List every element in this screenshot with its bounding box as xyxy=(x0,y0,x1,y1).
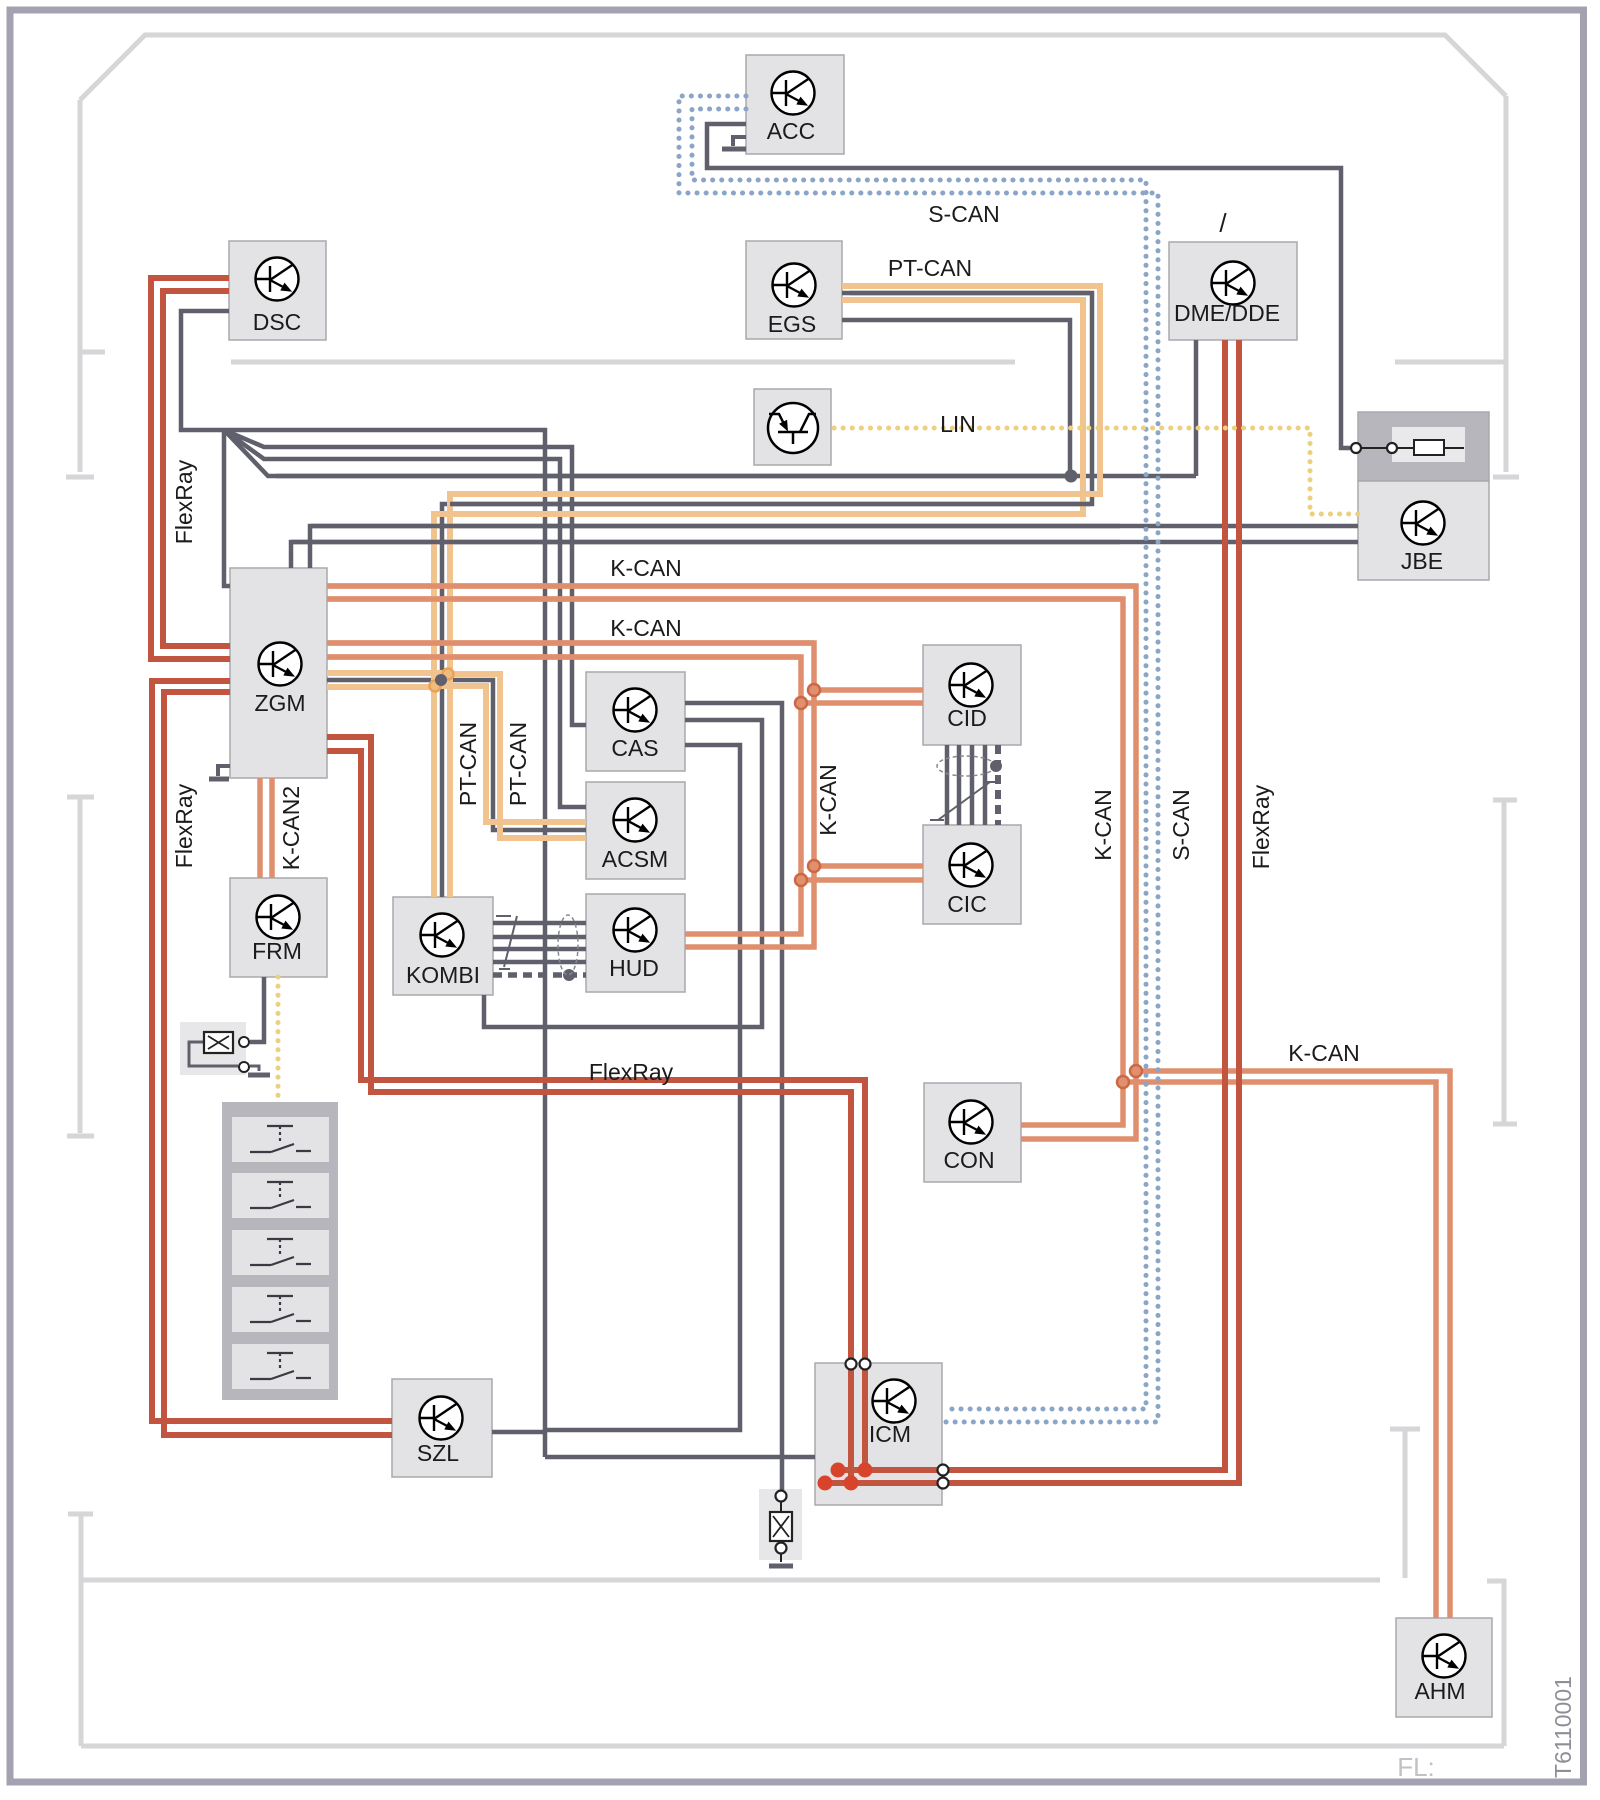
svg-text:CID: CID xyxy=(947,705,987,731)
svg-text:KOMBI: KOMBI xyxy=(406,962,480,988)
FlexRay ICM to DME lower xyxy=(948,340,1239,1483)
icon ICM xyxy=(873,1380,916,1423)
switch box 5 xyxy=(232,1344,329,1389)
KOMBI HUD wire 2 xyxy=(493,935,586,940)
ECU box ZGM xyxy=(230,568,327,778)
svg-text:CAS: CAS xyxy=(611,735,658,761)
svg-text:PT-CAN: PT-CAN xyxy=(455,722,481,806)
S-CAN dotted outer ACC-ICM xyxy=(679,96,1158,1422)
KOMBI bundle slash xyxy=(496,916,517,969)
steering column stalk box xyxy=(754,389,831,465)
wire dark fan long line y476 xyxy=(224,430,1196,476)
svg-text:ZGM: ZGM xyxy=(254,690,305,716)
svg-text:PT-CAN: PT-CAN xyxy=(505,722,531,806)
svg-text:K-CAN2: K-CAN2 xyxy=(278,786,304,870)
ECU box FRM xyxy=(230,878,327,977)
icon JBE xyxy=(1402,502,1445,545)
svg-text:K-CAN: K-CAN xyxy=(610,555,682,581)
firewall line right segment xyxy=(1395,360,1506,365)
icon ACSM xyxy=(614,799,657,842)
svg-text:K-CAN: K-CAN xyxy=(1090,789,1116,861)
switch box 4 xyxy=(232,1287,329,1332)
FlexRay pair ZGM-ICM line a xyxy=(327,737,851,1360)
car body right side line xyxy=(1493,96,1519,477)
svg-text:CON: CON xyxy=(943,1147,994,1173)
car body left lower vertical xyxy=(68,1514,93,1746)
K-CAN pair1 branch AHM b xyxy=(1123,1082,1436,1618)
JBE fuse element xyxy=(1414,440,1444,455)
K-CAN branch CIC lower xyxy=(801,877,923,883)
svg-text:CIC: CIC xyxy=(947,891,987,917)
left door tick xyxy=(81,350,105,355)
wire dark EGS lower to junction dot xyxy=(842,320,1070,476)
rear seat line xyxy=(81,1578,1380,1583)
svg-text:K-CAN: K-CAN xyxy=(610,615,682,641)
svg-text:PT-CAN: PT-CAN xyxy=(888,255,972,281)
relay X box xyxy=(204,1032,233,1053)
terminator stub ZGM xyxy=(218,766,230,776)
JBE fuse inner box xyxy=(1392,427,1465,462)
svg-text:FlexRay: FlexRay xyxy=(1248,784,1274,869)
CID CIC dashed wire xyxy=(995,745,1001,825)
wire dark DME vertical xyxy=(1194,340,1199,476)
car body outline top xyxy=(80,35,1506,100)
ECU box CIC xyxy=(923,825,1021,924)
FlexRay pair ZGM-ICM line b xyxy=(327,751,865,1360)
svg-text:ICM: ICM xyxy=(869,1421,911,1447)
CID CIC connector wires xyxy=(947,745,985,825)
KOMBI HUD wire 1 xyxy=(493,921,586,926)
CID CIC harness dot xyxy=(990,760,1002,772)
icon AHM xyxy=(1423,1635,1466,1678)
LIN dotted FRM to switches xyxy=(276,977,281,1100)
terminator stub ACC xyxy=(733,137,746,146)
PT-CAN tan ZGM out upper xyxy=(327,670,448,676)
switch stack container xyxy=(222,1102,338,1400)
svg-text:FL:: FL: xyxy=(1397,1752,1435,1782)
wire dark fan to ACSM via 560 xyxy=(224,430,586,807)
PT-CAN junction dots xyxy=(443,669,454,680)
FlexRay pair ZGM-SZL line a xyxy=(152,681,392,1421)
wire dark CAS right to bulb branch xyxy=(685,703,782,1490)
wire dark DSC to fan junction xyxy=(181,311,229,430)
icon DME/DDE xyxy=(1212,262,1255,305)
left door sill bracket xyxy=(67,797,94,1136)
ECU box CID xyxy=(923,645,1021,745)
icon HUD xyxy=(614,909,657,952)
PT-CAN tan ZGM out lower xyxy=(327,684,434,690)
K-CAN branch CID upper xyxy=(814,687,923,693)
svg-text:LIN: LIN xyxy=(940,411,976,437)
wire dark fan to vertical 545 xyxy=(224,430,545,1457)
ECU box ACSM xyxy=(586,782,685,879)
K-CAN2 pair ZGM-FRM xyxy=(260,778,272,878)
FlexRay ICM internal horizontal upper xyxy=(838,1467,938,1473)
wire dark fan junction to ZGM top left xyxy=(224,430,230,586)
FlexRay inside ICM vertical a xyxy=(848,1368,854,1483)
ECU box SZL xyxy=(392,1379,492,1477)
K-CAN pair1 line b xyxy=(327,599,1123,1125)
CID CIC bundle slash xyxy=(930,782,998,820)
svg-text:DME/DDE: DME/DDE xyxy=(1174,300,1280,326)
svg-text:K-CAN: K-CAN xyxy=(1288,1040,1360,1066)
ICM red stub dots xyxy=(831,1463,846,1478)
K-CAN branch CIC upper xyxy=(814,863,923,869)
K-CAN junction dots CID CIC xyxy=(808,684,820,696)
icon FRM xyxy=(257,896,300,939)
ECU box ACC xyxy=(746,55,844,154)
FlexRay pair DSC-ZGM line b xyxy=(163,291,230,646)
relay box background xyxy=(180,1022,246,1075)
svg-text:ACSM: ACSM xyxy=(602,846,668,872)
wire dark ZGM pair to JBE upper xyxy=(310,526,1358,568)
svg-text:JBE: JBE xyxy=(1401,548,1443,574)
wire dark ZGM pair to JBE lower xyxy=(291,542,1358,568)
ECU box HUD xyxy=(586,894,685,992)
svg-text:SZL: SZL xyxy=(417,1440,459,1466)
overpaint slate mid line continuity xyxy=(276,293,1090,504)
ECU box DME/DDE xyxy=(1169,242,1297,340)
wire dark ZGM PT-CAN slate out xyxy=(327,678,442,683)
PT-CAN tan branch ACSM upper xyxy=(448,674,586,838)
KOMBI HUD dashed wire xyxy=(493,972,586,978)
PT-CAN tan EGS loop inner xyxy=(434,300,1083,897)
bulb box symbol xyxy=(780,1490,782,1562)
icon EGS xyxy=(773,264,816,307)
wire dark PT-CAN slate branch to ACSM xyxy=(441,680,586,830)
FlexRay inside ICM vertical b xyxy=(862,1368,868,1470)
svg-text:FRM: FRM xyxy=(252,938,302,964)
svg-text:HUD: HUD xyxy=(609,955,659,981)
icon CON xyxy=(950,1101,993,1144)
svg-text:AHM: AHM xyxy=(1414,1678,1465,1704)
wire dark fan to CAS via 572 xyxy=(224,430,586,725)
svg-text:ACC: ACC xyxy=(767,118,816,144)
JBE header box xyxy=(1358,412,1489,481)
wire dark SZL right xyxy=(492,1430,545,1435)
bulb box background xyxy=(759,1489,802,1560)
wire dark to ICM left xyxy=(545,1455,815,1460)
icon stalk module xyxy=(768,403,818,453)
overpaint salmon K-CAN horizontals continuity xyxy=(327,586,1136,657)
FlexRay pair ZGM-SZL line b xyxy=(164,692,392,1435)
icon CIC xyxy=(950,844,993,887)
svg-text:S-CAN: S-CAN xyxy=(1168,789,1194,861)
switch box 2 xyxy=(232,1173,329,1218)
svg-text:S-CAN: S-CAN xyxy=(928,201,1000,227)
svg-text:T6110001: T6110001 xyxy=(1550,1676,1576,1778)
ECU box AHM xyxy=(1396,1618,1492,1717)
right door sill bracket xyxy=(1493,800,1517,1124)
icon ACC xyxy=(772,72,815,115)
icon KOMBI xyxy=(421,914,464,957)
K-CAN pair1 line a ZGM-CON-AHM xyxy=(327,586,1136,1139)
ECU box DSC xyxy=(229,241,326,340)
wire dark CAS right to KOMBI bottom xyxy=(484,720,762,1027)
svg-text:DSC: DSC xyxy=(253,309,302,335)
KOMBI connector ellipse xyxy=(558,915,578,975)
ECU box CON xyxy=(924,1083,1021,1182)
K-CAN pair2 line a ZGM-CID-CIC-HUD xyxy=(327,643,814,947)
overpaint FlexRay bottom horizontals continuity xyxy=(361,1080,865,1092)
wire dark EGS PT-CAN slate loop xyxy=(442,293,1092,897)
svg-text:FlexRay: FlexRay xyxy=(171,459,197,544)
relay ground bar xyxy=(248,1073,270,1078)
FlexRay ICM internal horizontal lower xyxy=(825,1480,938,1486)
ECU box KOMBI xyxy=(393,897,493,995)
LIN dotted stalk to JBE xyxy=(834,428,1358,514)
K-CAN branch CID lower xyxy=(801,700,923,706)
JBE fuse terminal circles xyxy=(1351,443,1361,453)
relay internal wiring xyxy=(189,1042,259,1071)
trunk floor line xyxy=(81,1744,1504,1749)
ICM terminal circles right xyxy=(938,1465,949,1476)
FlexRay pair DSC-ZGM line a xyxy=(151,278,230,659)
icon CID xyxy=(950,664,993,707)
wire dark ACC to JBE fuse xyxy=(707,124,1350,448)
JBE fuse wire xyxy=(1361,447,1464,449)
K-CAN pair1 branch AHM a xyxy=(1136,1071,1450,1618)
svg-text:/: / xyxy=(1219,208,1227,238)
icon CAS xyxy=(614,689,657,732)
S-CAN dotted inner ACC-ICM xyxy=(692,109,1146,1409)
svg-text:FlexRay: FlexRay xyxy=(589,1059,674,1085)
KOMBI harness dot xyxy=(563,969,575,981)
firewall line left segment xyxy=(231,360,1015,365)
icon ZGM xyxy=(259,643,302,686)
overpaint FlexRay verticals at AHM K-CAN crossing xyxy=(1225,1058,1239,1096)
PT-CAN tan EGS loop outer xyxy=(450,286,1100,897)
JBE body box xyxy=(1358,481,1489,580)
switch box 1 xyxy=(232,1117,329,1162)
overpaint slate JBE pair continuity xyxy=(292,526,1120,542)
junction dot dark PT-CAN xyxy=(435,674,447,686)
FlexRay ICM to DME upper xyxy=(948,340,1225,1470)
rear right bracket xyxy=(1390,1429,1420,1578)
icon SZL xyxy=(420,1397,463,1440)
relay terminal circles xyxy=(239,1037,249,1047)
car body left side line xyxy=(66,100,94,477)
PT-CAN tan branch ACSM lower xyxy=(434,686,586,822)
KOMBI HUD wire 3 xyxy=(493,947,586,952)
svg-text:K-CAN: K-CAN xyxy=(815,764,841,836)
CID CIC connector ellipse xyxy=(937,756,995,776)
icon DSC xyxy=(256,258,299,301)
bulb ground bar xyxy=(769,1564,793,1569)
ECU box EGS xyxy=(746,241,842,339)
wire dark FRM bottom to relay xyxy=(250,977,264,1042)
K-CAN junction dots AHM branch xyxy=(1130,1065,1142,1077)
K-CAN pair2 line b xyxy=(327,657,801,934)
rear corner piece right xyxy=(1487,1581,1504,1746)
wire dark CAS right to SZL net xyxy=(545,745,740,1430)
ECU box ICM xyxy=(815,1363,942,1505)
ICM terminal circles top xyxy=(846,1359,857,1370)
svg-text:FlexRay: FlexRay xyxy=(171,783,197,868)
overpaint PT-CAN tan horizontals continuity xyxy=(442,286,1100,514)
KOMBI HUD wire 4 xyxy=(493,960,586,965)
ECU box CAS xyxy=(586,672,685,771)
svg-text:EGS: EGS xyxy=(768,311,817,337)
junction dot dark y476 xyxy=(1065,470,1078,483)
switch box 3 xyxy=(232,1230,329,1275)
